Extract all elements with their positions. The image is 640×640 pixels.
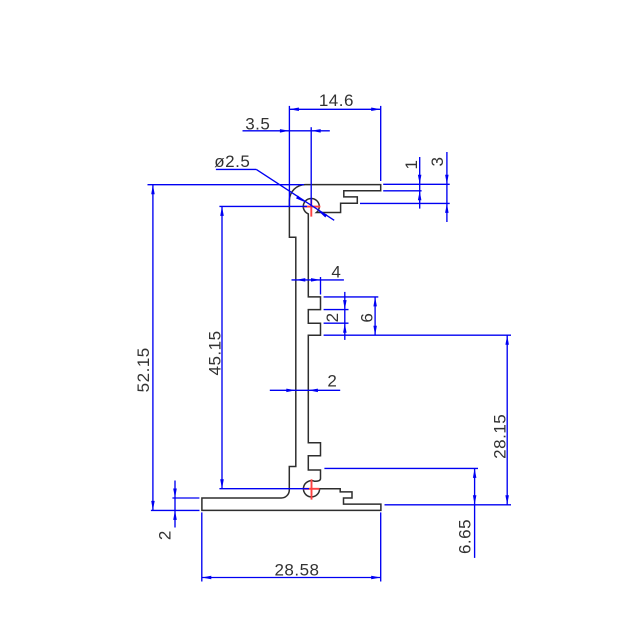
svg-text:3: 3 xyxy=(428,157,447,167)
extrusion profile outline xyxy=(202,185,381,511)
svg-text:2: 2 xyxy=(327,372,337,391)
leader diameter 2.5 xyxy=(214,152,334,221)
center mark hole C1 xyxy=(310,200,312,217)
svg-text:2: 2 xyxy=(156,530,175,540)
dimension 45.15 xyxy=(206,206,310,488)
svg-text:14.6: 14.6 xyxy=(319,91,354,110)
svg-text:28.58: 28.58 xyxy=(274,560,319,579)
svg-text:45.15: 45.15 xyxy=(206,330,225,375)
svg-text:2: 2 xyxy=(323,312,342,322)
dimension 28.15 xyxy=(385,335,512,505)
dimension 2 base thickness xyxy=(156,481,200,541)
dimension 28.58 xyxy=(202,512,381,581)
svg-text:1: 1 xyxy=(402,160,421,170)
dimension 1 xyxy=(383,157,450,209)
dimension 6.65 xyxy=(324,468,478,558)
dimension 4 xyxy=(292,263,344,295)
dimension 3 xyxy=(360,152,450,222)
dimension 2 tooth gap xyxy=(323,292,349,340)
svg-text:28.15: 28.15 xyxy=(491,414,510,459)
svg-text:3.5: 3.5 xyxy=(245,115,270,134)
svg-text:52.15: 52.15 xyxy=(134,347,153,392)
svg-text:6.65: 6.65 xyxy=(456,519,475,554)
dimension 6 xyxy=(324,297,511,335)
dimension 2 stem wall xyxy=(270,372,340,393)
svg-text:6: 6 xyxy=(358,313,377,323)
dimension 14.6 xyxy=(289,91,380,207)
svg-text:4: 4 xyxy=(331,263,341,282)
svg-text:ø2.5: ø2.5 xyxy=(214,152,250,171)
dimension 52.15 xyxy=(134,185,304,511)
center mark hole C2 xyxy=(311,479,313,499)
dimension 3.5 xyxy=(243,115,330,207)
